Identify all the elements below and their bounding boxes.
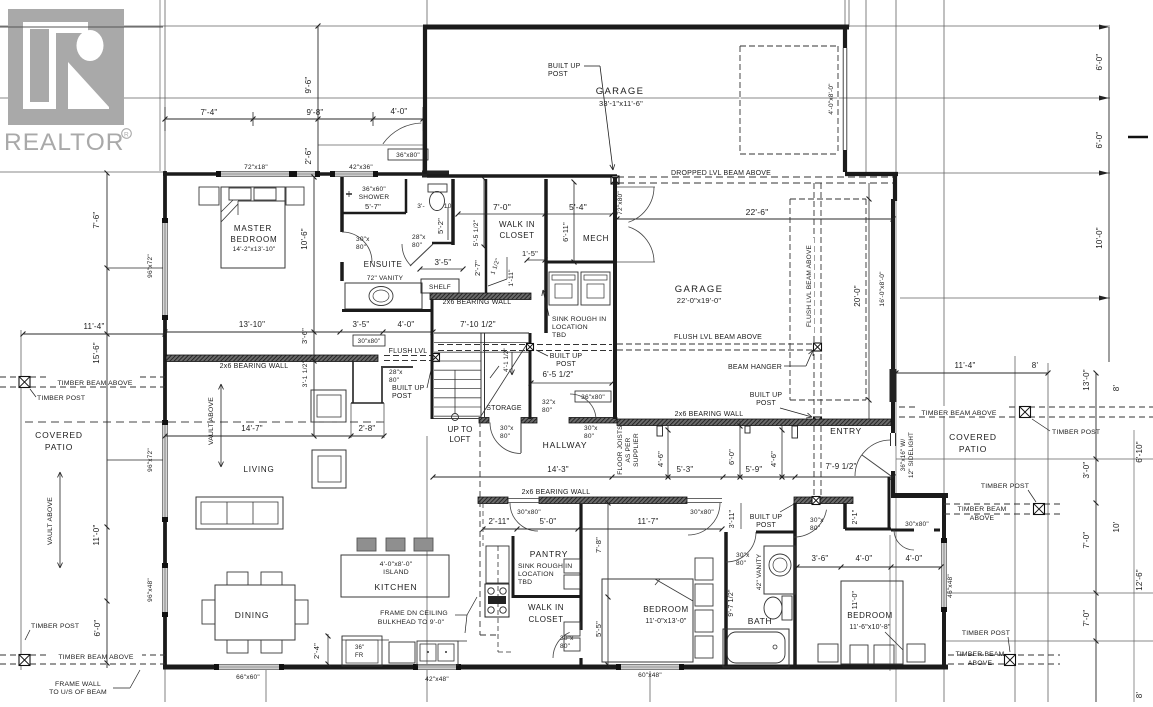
bearing wall ensuite y=293-300 hatched	[430, 293, 531, 300]
garage left wall	[423, 27, 427, 174]
svg-text:LOFT: LOFT	[449, 435, 470, 444]
dashed overhead door rect garage top	[740, 46, 838, 154]
door header bedroom1	[687, 498, 722, 500]
entry door gap + sidelight	[890, 433, 892, 446]
svg-text:66"x60": 66"x60"	[236, 674, 260, 681]
timber post left top	[19, 377, 30, 388]
svg-text:FR: FR	[355, 653, 364, 659]
construction line horizontal y=26	[0, 25, 425, 27]
toilet nook wall x=453	[451, 179, 455, 245]
svg-text:3'-6": 3'-6"	[300, 328, 309, 344]
dashed pantry left	[482, 503, 484, 546]
label TIMBER BEAM ABOVE left bottom	[50, 650, 142, 660]
svg-text:2x6 BEARING WALL: 2x6 BEARING WALL	[443, 299, 512, 306]
svg-text:7'-6": 7'-6"	[92, 212, 101, 229]
svg-text:5'-5 1/2": 5'-5 1/2"	[473, 219, 480, 246]
svg-text:MECH: MECH	[583, 234, 609, 243]
svg-text:13'-0": 13'-0"	[1082, 369, 1091, 391]
dim 5'-5 rotated	[607, 597, 609, 665]
chase extension lines	[350, 403, 352, 438]
label FLUSH LVL BEAM ABOVE horizontal	[668, 331, 768, 340]
armchair 1	[311, 390, 346, 422]
wall pantry/bedroom1 x=581	[579, 504, 582, 630]
wall stub below garage bearing wall b	[792, 426, 798, 438]
kitchen island	[341, 555, 449, 597]
svg-text:9'-8": 9'-8"	[307, 108, 324, 117]
svg-text:11'-0": 11'-0"	[852, 590, 859, 609]
wall house top (closet/mech)	[427, 174, 617, 178]
construction line horizontal y=172 left	[0, 171, 163, 173]
dim line master y=332	[165, 331, 433, 333]
svg-text:14'-2"x13'-10": 14'-2"x13'-10"	[233, 246, 276, 253]
dim line bedroom2 y=567	[797, 566, 941, 568]
shower fitting	[346, 193, 352, 195]
construction line vertical x=165	[164, 0, 166, 171]
construction line vertical x=848 top	[844, 0, 846, 27]
label DROPPED LVL BEAM ABOVE	[664, 167, 778, 176]
window short top wall	[294, 171, 318, 177]
bearing wall hallway south hatched segment 2	[539, 497, 687, 504]
svg-text:46"x48": 46"x48"	[947, 574, 954, 598]
svg-text:42" VANITY: 42" VANITY	[756, 553, 763, 590]
sofa	[196, 497, 283, 529]
svg-text:12'-6": 12'-6"	[1135, 569, 1144, 591]
svg-text:POST: POST	[392, 393, 412, 400]
dim 7'-8 rotated	[607, 503, 609, 597]
svg-text:20'-0": 20'-0"	[853, 285, 862, 307]
svg-text:96"x72": 96"x72"	[147, 254, 154, 278]
window dim line y=268	[107, 267, 163, 269]
wall jog garage to entry	[845, 172, 898, 176]
svg-text:PANTRY: PANTRY	[530, 549, 569, 559]
post entry bearing wall	[812, 497, 820, 505]
post near stairs	[527, 344, 534, 351]
svg-text:5'-3": 5'-3"	[677, 465, 694, 474]
timber beam dashed right bottom	[948, 654, 1060, 656]
svg-text:3'-6": 3'-6"	[812, 554, 829, 563]
svg-text:10'-0": 10'-0"	[1095, 227, 1104, 249]
garage interior west wall	[613, 177, 617, 419]
svg-text:8': 8'	[1135, 692, 1144, 699]
svg-text:VAULT ABOVE: VAULT ABOVE	[47, 497, 54, 545]
window 72x18 top wall	[218, 171, 292, 177]
dim 4'-6 rotated hall 2	[781, 426, 783, 477]
dim line right x=1109	[1108, 27, 1110, 362]
svg-text:2'-11": 2'-11"	[489, 517, 510, 526]
svg-text:80": 80"	[560, 643, 571, 650]
svg-text:7'-8": 7'-8"	[594, 537, 603, 553]
bulkhead dashed vertical right	[497, 546, 499, 652]
island stools	[357, 538, 376, 551]
dim 7'-0 / 5'-4 y=214	[458, 213, 612, 215]
svg-text:36"x80": 36"x80"	[396, 152, 420, 159]
ensuite south wall	[342, 309, 432, 312]
svg-text:5'-2": 5'-2"	[436, 218, 445, 234]
house bottom wall	[163, 665, 948, 670]
svg-text:22'-6": 22'-6"	[746, 207, 769, 217]
svg-text:11'-0"x13'-0": 11'-0"x13'-0"	[645, 618, 687, 625]
svg-text:DROPPED LVL BEAM ABOVE: DROPPED LVL BEAM ABOVE	[671, 170, 771, 177]
svg-text:1'-5": 1'-5"	[522, 249, 538, 258]
svg-text:6'-5 1/2": 6'-5 1/2"	[542, 370, 573, 379]
dim line 22'-6" y=219	[617, 218, 893, 220]
svg-text:COVERED: COVERED	[949, 432, 997, 442]
svg-text:12" SIDELIGHT: 12" SIDELIGHT	[908, 432, 915, 478]
svg-text:REALTOR: REALTOR	[4, 129, 124, 156]
wall bedroom/ensuite x=342	[340, 177, 344, 232]
svg-text:POST: POST	[756, 400, 776, 407]
construction line vertical x=266 bottom	[265, 668, 267, 702]
wall house top (master bedroom)	[163, 172, 427, 176]
label 36x80 boxed hallway	[575, 391, 611, 402]
vanity bath	[764, 546, 795, 594]
bedroom1 door arc	[688, 503, 720, 535]
vault above arrow living	[220, 384, 222, 427]
flush lvl beam horizontal dashed pair	[617, 343, 821, 345]
svg-text:2'-1": 2'-1"	[852, 509, 859, 524]
window 42x48 bottom	[415, 664, 459, 670]
svg-text:2x6 BEARING WALL: 2x6 BEARING WALL	[522, 489, 591, 496]
window garage east wall	[890, 369, 897, 402]
window 96x72 left wall upper	[162, 220, 168, 318]
bed2 pillows	[850, 645, 868, 664]
svg-text:6'-0": 6'-0"	[1095, 132, 1104, 149]
dim line 14'-7 y=436	[165, 435, 384, 437]
svg-text:5'-0": 5'-0"	[540, 517, 557, 526]
dim 4'-6 rotated hall 1	[667, 426, 669, 477]
svg-text:2'-8": 2'-8"	[359, 424, 376, 433]
construction line horizontal y=459 right	[896, 458, 1153, 460]
kitchen counter edge	[341, 636, 343, 666]
armchair 2	[312, 450, 346, 488]
patio door swing arc top wall	[383, 123, 421, 144]
closet chase left wall	[352, 361, 354, 403]
stairs left wall	[431, 299, 434, 419]
svg-text:BUILT UP: BUILT UP	[392, 385, 425, 392]
label FLUSH LVL BEAM ABOVE rotated	[804, 238, 814, 334]
REALTOR logo box	[8, 9, 124, 125]
svg-text:30"x: 30"x	[736, 552, 750, 559]
svg-text:80": 80"	[356, 244, 367, 251]
svg-text:VAULT ABOVE: VAULT ABOVE	[208, 397, 215, 445]
svg-text:BUILT UP: BUILT UP	[550, 353, 583, 360]
svg-text:BEDROOM: BEDROOM	[847, 611, 893, 620]
closet door arc	[894, 530, 914, 550]
svg-text:HALLWAY: HALLWAY	[543, 440, 588, 450]
dim 6'-5 1/2	[531, 382, 612, 384]
tall cabinet kitchen	[486, 546, 509, 583]
svg-text:COVERED: COVERED	[35, 430, 83, 440]
bulkhead dashed vertical	[479, 421, 481, 635]
svg-text:9'-6": 9'-6"	[304, 77, 313, 94]
window 96x48 left wall lower	[162, 565, 168, 615]
label TIMBER BEAM ABOVE right top	[915, 406, 1005, 416]
svg-text:14'-3": 14'-3"	[547, 465, 569, 474]
svg-text:15'-6": 15'-6"	[92, 342, 101, 364]
construction line vertical x=1015	[1014, 356, 1016, 702]
washer dryer	[549, 272, 578, 305]
svg-text:BUILT UP: BUILT UP	[548, 63, 581, 70]
svg-text:16'-0"x8'-0": 16'-0"x8'-0"	[879, 271, 886, 307]
dashed overhead door rect garage bottom	[790, 198, 866, 200]
closet chase right wall	[381, 368, 383, 403]
svg-text:FLOOR JOISTS: FLOOR JOISTS	[617, 425, 624, 475]
svg-text:PATIO: PATIO	[45, 442, 73, 452]
bath east wall	[793, 503, 797, 667]
svg-text:11'-4": 11'-4"	[84, 322, 105, 331]
svg-text:UP TO: UP TO	[447, 425, 472, 434]
svg-text:30"x80": 30"x80"	[517, 509, 541, 516]
svg-text:GARAGE: GARAGE	[675, 284, 723, 295]
svg-text:7'-0": 7'-0"	[1082, 532, 1091, 549]
svg-text:TIMBER POST: TIMBER POST	[1052, 429, 1100, 436]
svg-text:3'-5": 3'-5"	[435, 258, 452, 267]
construction line vertical x=896	[895, 0, 897, 176]
timber post right top	[1020, 407, 1031, 418]
svg-text:80": 80"	[584, 433, 595, 440]
svg-text:BEDROOM: BEDROOM	[231, 235, 278, 244]
wic2 shelf boxes	[564, 622, 580, 636]
dim 6'-11 rotated	[573, 182, 575, 262]
construction line horizontal y=98	[0, 97, 1110, 99]
svg-text:POST: POST	[548, 71, 568, 78]
svg-text:FLUSH LVL BEAM ABOVE: FLUSH LVL BEAM ABOVE	[806, 245, 813, 327]
svg-text:BEDROOM: BEDROOM	[643, 605, 689, 614]
svg-text:11'-4": 11'-4"	[955, 361, 976, 370]
svg-text:BULKHEAD TO 9'-0": BULKHEAD TO 9'-0"	[378, 619, 445, 626]
dimension line top y=119	[165, 118, 425, 120]
svg-text:7'-4": 7'-4"	[201, 108, 218, 117]
dim 6'-0 rotated hall	[739, 421, 741, 477]
svg-text:TIMBER BEAM ABOVE: TIMBER BEAM ABOVE	[57, 380, 132, 387]
construction line vertical x=1134	[1133, 430, 1135, 702]
svg-text:30"x80": 30"x80"	[905, 521, 929, 528]
svg-text:SHOWER: SHOWER	[359, 194, 390, 201]
door 30x80 ensuite	[342, 232, 372, 262]
bath north wall piece	[756, 531, 795, 534]
bearing wall hallway top hatched segment b	[521, 418, 537, 424]
svg-text:3'-11": 3'-11"	[729, 509, 736, 528]
construction line vertical x=21 left	[20, 330, 22, 670]
flush lvl beam vertical dashed pair	[813, 183, 815, 497]
svg-text:13'-10": 13'-10"	[239, 320, 265, 329]
window 96x72 left wall mid	[162, 422, 168, 520]
svg-text:4'-0": 4'-0"	[391, 107, 408, 116]
svg-text:6'-0": 6'-0"	[1095, 54, 1104, 71]
closet walls SE	[888, 477, 891, 529]
window 66x60 bottom	[216, 664, 282, 670]
svg-text:6'-11": 6'-11"	[561, 222, 570, 242]
svg-text:ABOVE: ABOVE	[968, 660, 993, 667]
svg-text:10": 10"	[444, 203, 455, 210]
tub	[723, 629, 789, 667]
svg-text:10'-6": 10'-6"	[300, 228, 309, 250]
svg-text:4'-6": 4'-6"	[769, 451, 778, 467]
svg-text:80": 80"	[736, 560, 747, 567]
svg-text:80": 80"	[389, 377, 400, 384]
door band top wall nook	[422, 171, 449, 178]
bearing wall hallway south y=497 hatched segment 1	[478, 497, 508, 504]
nightstand master left	[199, 187, 219, 205]
svg-text:72" VANITY: 72" VANITY	[367, 275, 404, 282]
svg-text:ENTRY: ENTRY	[830, 426, 862, 436]
svg-text:TIMBER POST: TIMBER POST	[981, 483, 1029, 490]
dim line hallway y=477	[433, 476, 893, 478]
dim line right x=1096	[1095, 373, 1097, 702]
svg-text:80": 80"	[500, 433, 511, 440]
dim 11'-4 right	[896, 372, 1048, 374]
pantry west wall	[512, 536, 515, 598]
svg-text:KITCHEN: KITCHEN	[375, 582, 418, 592]
timber post left bottom	[19, 655, 30, 666]
svg-text:4'-0": 4'-0"	[856, 554, 873, 563]
svg-text:POST: POST	[756, 522, 776, 529]
bed master	[221, 187, 285, 268]
svg-text:ABOVE: ABOVE	[970, 515, 995, 522]
house left wall	[163, 171, 167, 667]
flush lvl dashed segment B	[438, 344, 612, 346]
svg-text:80": 80"	[412, 242, 423, 249]
svg-text:4'-0"x8'-0": 4'-0"x8'-0"	[828, 83, 835, 115]
svg-text:5'-4": 5'-4"	[569, 202, 587, 212]
svg-text:5'-9": 5'-9"	[746, 465, 763, 474]
svg-text:TIMBER POST: TIMBER POST	[962, 630, 1010, 637]
stair diagonal break	[481, 344, 527, 416]
dining chairs	[227, 572, 248, 585]
label 36x80 boxed	[388, 149, 428, 160]
bedroom2 door	[794, 510, 827, 537]
svg-text:4'-6": 4'-6"	[656, 451, 665, 467]
dim 11'-4 left	[23, 333, 165, 335]
dim line left patio vertical x=107	[106, 173, 108, 668]
closet chase bottom wall	[351, 402, 384, 404]
entry door swing	[855, 440, 891, 476]
svg-text:7'-9 1/2": 7'-9 1/2"	[825, 462, 856, 471]
svg-text:11'-6"x10'-8": 11'-6"x10'-8"	[849, 624, 891, 631]
svg-text:2x6 BEARING WALL: 2x6 BEARING WALL	[220, 363, 289, 370]
svg-text:30"x: 30"x	[584, 425, 598, 432]
bearing wall garage bottom y=419 hatched	[617, 419, 891, 426]
dim line vertical x=318 (9'-6")	[317, 26, 319, 172]
svg-text:30"x: 30"x	[500, 425, 514, 432]
svg-text:2'-4": 2'-4"	[312, 643, 321, 659]
vanity ensuite	[345, 283, 422, 309]
kitchen sink	[417, 641, 458, 665]
svg-text:8': 8'	[1032, 361, 1039, 370]
construction line vertical x=427	[426, 0, 428, 26]
hall door arc near laundry	[570, 394, 596, 420]
construction line horizontal y=173 right	[898, 172, 1110, 174]
bearing wall hallway top hatched segment c	[569, 418, 617, 424]
svg-text:2'-6": 2'-6"	[304, 148, 313, 165]
svg-text:30"x: 30"x	[356, 236, 370, 243]
wic1 left wall x=486	[485, 179, 488, 293]
stair newel circle	[452, 414, 459, 421]
svg-text:36": 36"	[355, 645, 364, 651]
svg-text:ENSUITE: ENSUITE	[364, 260, 403, 269]
garage right wall upper	[843, 27, 847, 48]
svg-text:AS PER: AS PER	[625, 437, 632, 462]
svg-text:4'-1 1/2": 4'-1 1/2"	[504, 348, 510, 372]
svg-text:LIVING: LIVING	[243, 465, 274, 474]
toilet bath	[782, 596, 792, 620]
svg-text:72"x18": 72"x18"	[244, 164, 268, 171]
svg-text:TBD: TBD	[518, 579, 532, 586]
kitchen dishwasher	[389, 642, 415, 663]
svg-text:CLOSET: CLOSET	[528, 615, 563, 624]
shower walls	[405, 179, 408, 213]
svg-text:42"x48": 42"x48"	[425, 676, 449, 683]
svg-text:30"x80": 30"x80"	[358, 338, 381, 345]
svg-text:28"x: 28"x	[389, 369, 403, 376]
svg-text:R: R	[124, 132, 129, 139]
mech south wall	[546, 261, 617, 264]
entry east wall	[891, 199, 895, 433]
svg-text:MASTER: MASTER	[234, 224, 272, 233]
construction line over logo	[0, 26, 163, 28]
svg-text:STORAGE: STORAGE	[486, 405, 522, 412]
bed2	[841, 581, 903, 664]
svg-text:TIMBER POST: TIMBER POST	[31, 623, 79, 630]
post at garage/mech corner	[611, 176, 619, 184]
svg-text:30"x: 30"x	[810, 517, 824, 524]
REALTOR logo R glyph	[23, 22, 56, 109]
svg-text:6'-0": 6'-0"	[93, 620, 102, 637]
window 46x48 right wall	[941, 540, 947, 610]
svg-text:36"x80": 36"x80"	[581, 394, 605, 401]
svg-text:4'-0"x8'-0": 4'-0"x8'-0"	[380, 561, 413, 568]
timber post right mid	[1034, 504, 1045, 515]
vault above arrow left	[59, 472, 61, 523]
construction line horizontal y=298 right	[900, 297, 1110, 299]
svg-text:BUILT UP: BUILT UP	[750, 392, 783, 399]
closet chase door header	[381, 366, 413, 368]
bath west wall	[724, 532, 728, 667]
window 42x36 top wall	[332, 171, 376, 177]
svg-text:32"x: 32"x	[542, 399, 556, 406]
svg-text:LOCATION: LOCATION	[518, 571, 554, 578]
svg-text:7'-0": 7'-0"	[1082, 610, 1091, 627]
timber beam above dashed left bottom	[0, 654, 165, 656]
timber beam above dashed left top	[0, 376, 165, 378]
label TIMBER BEAM ABOVE left top	[50, 376, 140, 386]
bath door arc	[726, 532, 756, 562]
post flush lvl at stairs	[432, 354, 440, 362]
bedroom2 nook wall	[843, 503, 847, 529]
dim 1'-5	[527, 259, 545, 261]
svg-text:TIMBER BEAM ABOVE: TIMBER BEAM ABOVE	[58, 654, 133, 661]
svg-text:SHELF: SHELF	[429, 284, 451, 291]
flush lvl dashed segment A	[384, 355, 433, 357]
svg-text:TBD: TBD	[552, 332, 566, 339]
angled door 28x80	[410, 244, 433, 266]
kitchen fridge 36 FR	[342, 636, 382, 666]
svg-text:4'-0": 4'-0"	[398, 320, 415, 329]
svg-text:WALK IN: WALK IN	[499, 220, 535, 229]
construction line horizontal y=593 right	[944, 592, 1153, 594]
svg-text:PATIO: PATIO	[959, 444, 987, 454]
svg-text:30"x80": 30"x80"	[690, 509, 714, 516]
svg-text:10': 10'	[1112, 521, 1121, 532]
svg-text:4'-0": 4'-0"	[906, 554, 923, 563]
timber beam dashed right top	[899, 406, 1153, 408]
svg-text:22'-0"x19'-0": 22'-0"x19'-0"	[677, 296, 722, 305]
svg-text:60"x48": 60"x48"	[638, 672, 662, 679]
wall stub below garage bearing wall c	[745, 426, 750, 433]
vault above dashed line living	[25, 421, 384, 423]
svg-text:96"x48": 96"x48"	[147, 578, 154, 602]
entry east wall below door	[891, 471, 895, 498]
